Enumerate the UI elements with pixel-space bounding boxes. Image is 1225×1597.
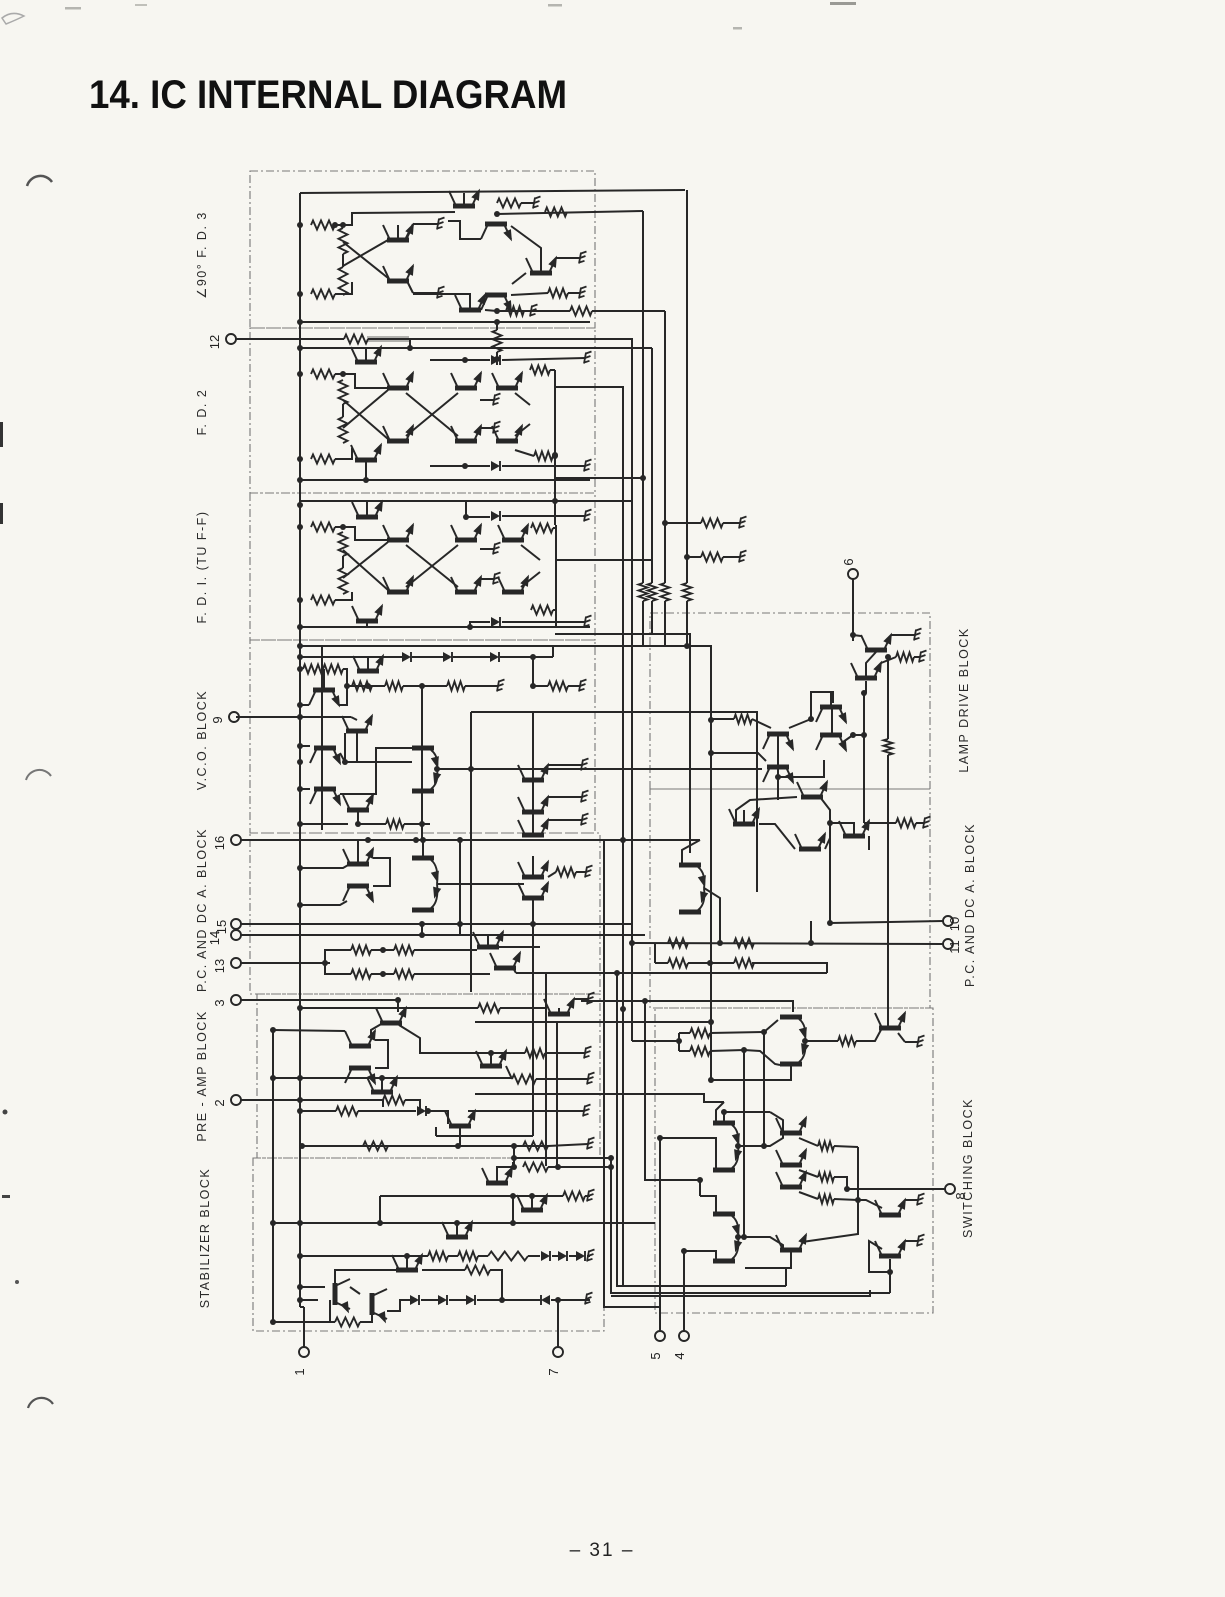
wire	[415, 838, 417, 840]
substrate	[581, 791, 589, 803]
resistor	[701, 519, 723, 528]
wire	[711, 718, 734, 720]
wire	[406, 545, 458, 587]
wire	[853, 635, 861, 636]
junction	[552, 453, 558, 459]
resistor	[303, 665, 323, 674]
scan mark hole punch bottom	[28, 1398, 53, 1408]
junction	[434, 766, 440, 772]
junction	[494, 211, 500, 217]
wire fd3 y214	[497, 211, 643, 214]
wire	[568, 292, 580, 294]
junction	[681, 1248, 687, 1254]
diode	[443, 652, 452, 662]
wire preamp rail	[272, 1030, 274, 1322]
resistor	[734, 959, 754, 968]
resistor	[683, 583, 692, 601]
junction	[297, 1220, 303, 1226]
wire	[350, 1287, 360, 1294]
diode	[490, 652, 499, 662]
junction	[380, 947, 386, 953]
wire	[356, 733, 358, 762]
junction	[511, 1164, 517, 1170]
resistor	[523, 1163, 548, 1172]
wire	[831, 709, 833, 733]
wire	[914, 656, 920, 658]
wire	[335, 592, 352, 600]
wire	[466, 501, 490, 517]
junction	[530, 654, 536, 660]
transistor	[352, 498, 387, 520]
wire	[344, 733, 346, 762]
wire y1001 long	[581, 1001, 793, 1012]
block P.C. AND DC A.	[250, 833, 600, 994]
wire	[449, 1299, 466, 1301]
wire	[905, 1041, 918, 1043]
transistor pair	[713, 1121, 743, 1173]
substrate	[739, 517, 747, 529]
transistor	[839, 817, 874, 839]
resistor	[545, 208, 567, 217]
wire	[545, 1052, 585, 1054]
wire	[799, 1170, 818, 1177]
wire	[521, 545, 540, 560]
transistor pair	[713, 1212, 743, 1264]
resistor	[530, 366, 550, 375]
junction	[365, 837, 371, 843]
wire fd2 cross a	[343, 390, 388, 428]
transistor	[333, 1279, 353, 1315]
transistor	[383, 573, 418, 595]
wire	[810, 921, 812, 943]
substrate	[584, 460, 592, 472]
wire	[513, 968, 516, 973]
transistor	[451, 573, 486, 595]
wire	[528, 1255, 540, 1257]
wire	[430, 465, 490, 467]
wire fd1 exit 478	[555, 477, 643, 479]
wire gap x604	[604, 840, 660, 1307]
resistor	[668, 959, 688, 968]
substrate	[914, 629, 922, 641]
transistor pair	[780, 1015, 810, 1067]
wire	[502, 358, 585, 360]
wire	[830, 823, 854, 834]
junction	[697, 1177, 703, 1183]
resistor	[548, 682, 568, 691]
substrate	[493, 394, 501, 406]
substrate	[919, 651, 927, 663]
wire vco fan out	[437, 768, 762, 770]
junction	[552, 452, 558, 458]
resistor	[385, 682, 403, 691]
wire	[502, 621, 585, 623]
junction	[377, 1220, 383, 1226]
junction	[861, 690, 867, 696]
svg-text:16: 16	[212, 836, 227, 850]
wire	[711, 1066, 791, 1080]
junction	[808, 940, 814, 946]
wire	[300, 704, 309, 706]
wire	[738, 1133, 783, 1146]
junction	[494, 319, 500, 325]
wire	[371, 1023, 383, 1038]
wire	[820, 797, 830, 823]
resistor	[335, 1318, 360, 1327]
junction	[340, 222, 346, 228]
wire	[548, 872, 556, 877]
wire	[448, 221, 481, 239]
wire	[524, 310, 531, 312]
wire	[548, 796, 582, 798]
wire row B	[548, 1166, 611, 1168]
diode	[466, 1295, 475, 1305]
junction	[620, 1006, 626, 1012]
transistor	[455, 291, 490, 313]
wire	[480, 548, 494, 550]
wire	[511, 293, 548, 295]
wire pin2	[241, 1099, 383, 1101]
substrate	[585, 1293, 593, 1305]
resistor	[311, 290, 335, 299]
wire	[480, 399, 494, 401]
wire	[335, 282, 352, 294]
wire	[789, 719, 811, 728]
resistor	[465, 1266, 490, 1275]
transistor	[518, 793, 553, 815]
wire fan emitter down	[704, 888, 720, 943]
wire fd3 top	[300, 190, 685, 193]
wire	[342, 556, 344, 568]
resistor	[311, 523, 335, 532]
junction	[775, 774, 781, 780]
scan mark top dash 4	[830, 2, 856, 5]
junction	[297, 654, 303, 660]
resistor	[339, 417, 348, 443]
wire	[916, 822, 924, 824]
transistor	[490, 949, 525, 971]
block PRE-AMP	[257, 994, 600, 1158]
wire	[555, 611, 557, 627]
transistor	[875, 1196, 910, 1218]
wire	[548, 1144, 588, 1146]
wire pin13	[241, 962, 330, 964]
substrate	[923, 817, 931, 829]
wire	[533, 685, 548, 687]
substrate	[584, 510, 592, 522]
resistor	[648, 583, 657, 601]
wire	[825, 838, 830, 849]
resistor	[478, 1004, 500, 1013]
junction	[297, 1005, 303, 1011]
wire pin11 lead	[632, 943, 943, 944]
wire	[810, 694, 812, 719]
transistor pair	[412, 746, 442, 794]
wire	[406, 1256, 408, 1268]
wire	[500, 656, 553, 658]
junction	[467, 624, 473, 630]
wire	[414, 973, 490, 975]
wire gap x617	[617, 973, 623, 1286]
junction	[717, 940, 723, 946]
resistor	[383, 1096, 405, 1105]
wire bus x623	[555, 387, 623, 1009]
junction	[608, 1155, 614, 1161]
wire vco x422 vert	[421, 686, 423, 840]
resistor	[896, 653, 914, 662]
resistor	[339, 568, 348, 594]
junction	[844, 1186, 850, 1192]
wire vco y686	[347, 685, 385, 687]
wire vco vert x471	[470, 712, 472, 992]
wire	[360, 1315, 372, 1322]
wire pin7 lead	[557, 1300, 559, 1347]
wire	[409, 339, 411, 348]
junction	[454, 1220, 460, 1226]
resistor	[323, 665, 343, 674]
transistor	[352, 602, 387, 624]
junction	[419, 932, 425, 938]
wire	[770, 1112, 783, 1133]
wire x557 long	[556, 1021, 558, 1167]
transistor	[367, 1073, 402, 1095]
wire	[898, 1033, 905, 1042]
substrate	[579, 680, 587, 692]
wire	[342, 404, 344, 417]
substrate	[587, 1138, 595, 1150]
junction	[529, 1193, 535, 1199]
scan mark dot 1	[3, 1110, 8, 1115]
wire	[569, 1255, 576, 1257]
wire	[687, 556, 701, 558]
wire	[300, 745, 310, 747]
transistor	[498, 521, 533, 543]
junction	[340, 524, 346, 530]
junction	[555, 1164, 561, 1170]
junction	[413, 837, 419, 843]
wire	[399, 1025, 525, 1053]
junction	[297, 821, 303, 827]
wire	[723, 1112, 725, 1123]
wire	[568, 685, 580, 687]
wire	[905, 1199, 918, 1201]
wire fd2 cross b	[343, 400, 388, 439]
resistor	[351, 946, 371, 955]
wire	[834, 1146, 858, 1147]
junction	[297, 1297, 303, 1303]
resistor	[701, 553, 723, 562]
transistor	[875, 1009, 910, 1031]
wire	[759, 824, 795, 849]
wire	[777, 769, 779, 777]
transistor	[392, 1251, 427, 1273]
wire	[335, 212, 455, 225]
wire row A y1146	[302, 1145, 548, 1147]
wire	[448, 1255, 458, 1257]
wire	[340, 753, 412, 762]
wire	[710, 1020, 778, 1033]
wire bus x641 lower	[642, 601, 644, 646]
resistor	[884, 739, 893, 755]
junction	[741, 1234, 747, 1240]
transistor	[776, 1146, 811, 1168]
resistor	[493, 330, 502, 352]
wire	[632, 1040, 679, 1042]
substrate	[584, 352, 592, 364]
wire pin16	[241, 839, 368, 841]
transistor	[776, 1114, 811, 1136]
junction	[708, 1077, 714, 1083]
svg-text:P.C. AND DC A. BLOCK: P.C. AND DC A. BLOCK	[195, 828, 209, 992]
diode	[410, 1295, 419, 1305]
wire stab bottom	[273, 1321, 330, 1323]
pin 12	[207, 334, 236, 349]
wire y712 to pc right	[471, 712, 757, 796]
transistor	[851, 659, 886, 681]
wire bus x652 upper	[651, 348, 653, 583]
transistor	[383, 422, 418, 444]
junction	[510, 1193, 516, 1199]
wire	[830, 693, 832, 705]
resistor	[661, 583, 670, 601]
transistor	[351, 441, 386, 463]
resistor	[506, 307, 524, 316]
wire pin8 lead	[847, 1188, 945, 1190]
junction	[299, 1143, 305, 1149]
resistor	[548, 289, 568, 298]
wire pin10 lead	[830, 921, 943, 923]
substrate	[493, 573, 501, 585]
wire x546 long	[545, 973, 547, 1166]
wire fan node out	[437, 883, 524, 885]
wire	[506, 1066, 512, 1079]
junction	[457, 921, 463, 927]
svg-text:1: 1	[292, 1368, 307, 1375]
wire x460 vert	[459, 840, 461, 935]
wire	[515, 393, 530, 405]
svg-text:LAMP DRIVE BLOCK: LAMP DRIVE BLOCK	[957, 627, 971, 772]
transistor	[763, 765, 798, 787]
wire	[300, 1286, 325, 1288]
wire	[480, 578, 494, 580]
wire	[351, 717, 357, 720]
junction	[419, 821, 425, 827]
transistor	[473, 928, 508, 950]
junction	[297, 865, 303, 871]
wire	[414, 949, 477, 951]
resistor	[311, 221, 335, 230]
wire	[554, 520, 556, 525]
resistor	[336, 1107, 358, 1116]
transistor	[518, 858, 553, 880]
junction	[555, 1297, 561, 1303]
wire	[375, 1040, 388, 1068]
wire	[335, 527, 387, 540]
wire	[357, 812, 359, 824]
wire	[502, 515, 585, 517]
wire	[343, 669, 347, 686]
wire fd3 cross b	[343, 242, 388, 278]
wire	[552, 1255, 558, 1257]
wire	[711, 753, 766, 761]
wire	[468, 1110, 584, 1112]
wire	[881, 657, 896, 663]
wire	[738, 1237, 783, 1250]
block STABILIZER	[253, 1158, 604, 1331]
junction	[420, 837, 426, 843]
substrate	[583, 1105, 591, 1117]
junction	[684, 643, 690, 649]
wire	[805, 1040, 838, 1042]
wire	[532, 856, 534, 875]
junction	[297, 786, 303, 792]
wire	[463, 193, 465, 206]
junction	[297, 1075, 303, 1081]
junction	[332, 222, 338, 228]
resistor	[352, 682, 372, 691]
junction	[684, 554, 690, 560]
junction	[511, 1143, 517, 1149]
diode	[576, 1251, 585, 1261]
wire stab y1223	[273, 1222, 655, 1224]
transistor	[445, 1107, 480, 1129]
transistor	[763, 732, 798, 754]
wire	[323, 669, 325, 688]
wire x831 down	[829, 823, 831, 923]
junction	[297, 371, 303, 377]
wire	[868, 836, 870, 850]
scan mark hole punch mid	[26, 770, 51, 780]
wire	[413, 294, 470, 308]
junction	[802, 1038, 808, 1044]
wire	[665, 522, 701, 524]
wire vco diode row	[300, 656, 382, 658]
pin 2	[212, 1095, 241, 1107]
wire y646 to x711	[302, 646, 711, 1022]
transistor	[383, 262, 418, 284]
wire	[342, 254, 344, 267]
junction	[297, 345, 303, 351]
substrate	[917, 1036, 925, 1048]
wire	[496, 352, 498, 365]
pin 11	[943, 939, 962, 954]
pin 3	[212, 995, 241, 1007]
wire	[421, 1299, 438, 1301]
wire gap x611	[611, 1158, 890, 1293]
junction	[761, 1029, 767, 1035]
wire	[553, 609, 556, 611]
wire	[406, 279, 413, 293]
wire stab y1196	[380, 1195, 563, 1197]
wire	[300, 823, 348, 825]
wire	[335, 1270, 407, 1283]
wire	[485, 310, 497, 311]
wire x858	[802, 1147, 858, 1242]
transistor	[383, 221, 418, 243]
substrate	[584, 616, 592, 628]
wire	[453, 656, 490, 658]
resistor	[534, 452, 553, 461]
junction	[855, 1197, 861, 1203]
resistor	[563, 1192, 585, 1201]
wire pin12	[236, 338, 344, 340]
svg-text:SWITCHING BLOCK: SWITCHING BLOCK	[961, 1098, 975, 1238]
resistor	[311, 596, 335, 605]
wire bus x687 upper	[686, 190, 688, 583]
transistor	[476, 1047, 511, 1069]
wire	[403, 685, 447, 687]
junction	[297, 502, 303, 508]
